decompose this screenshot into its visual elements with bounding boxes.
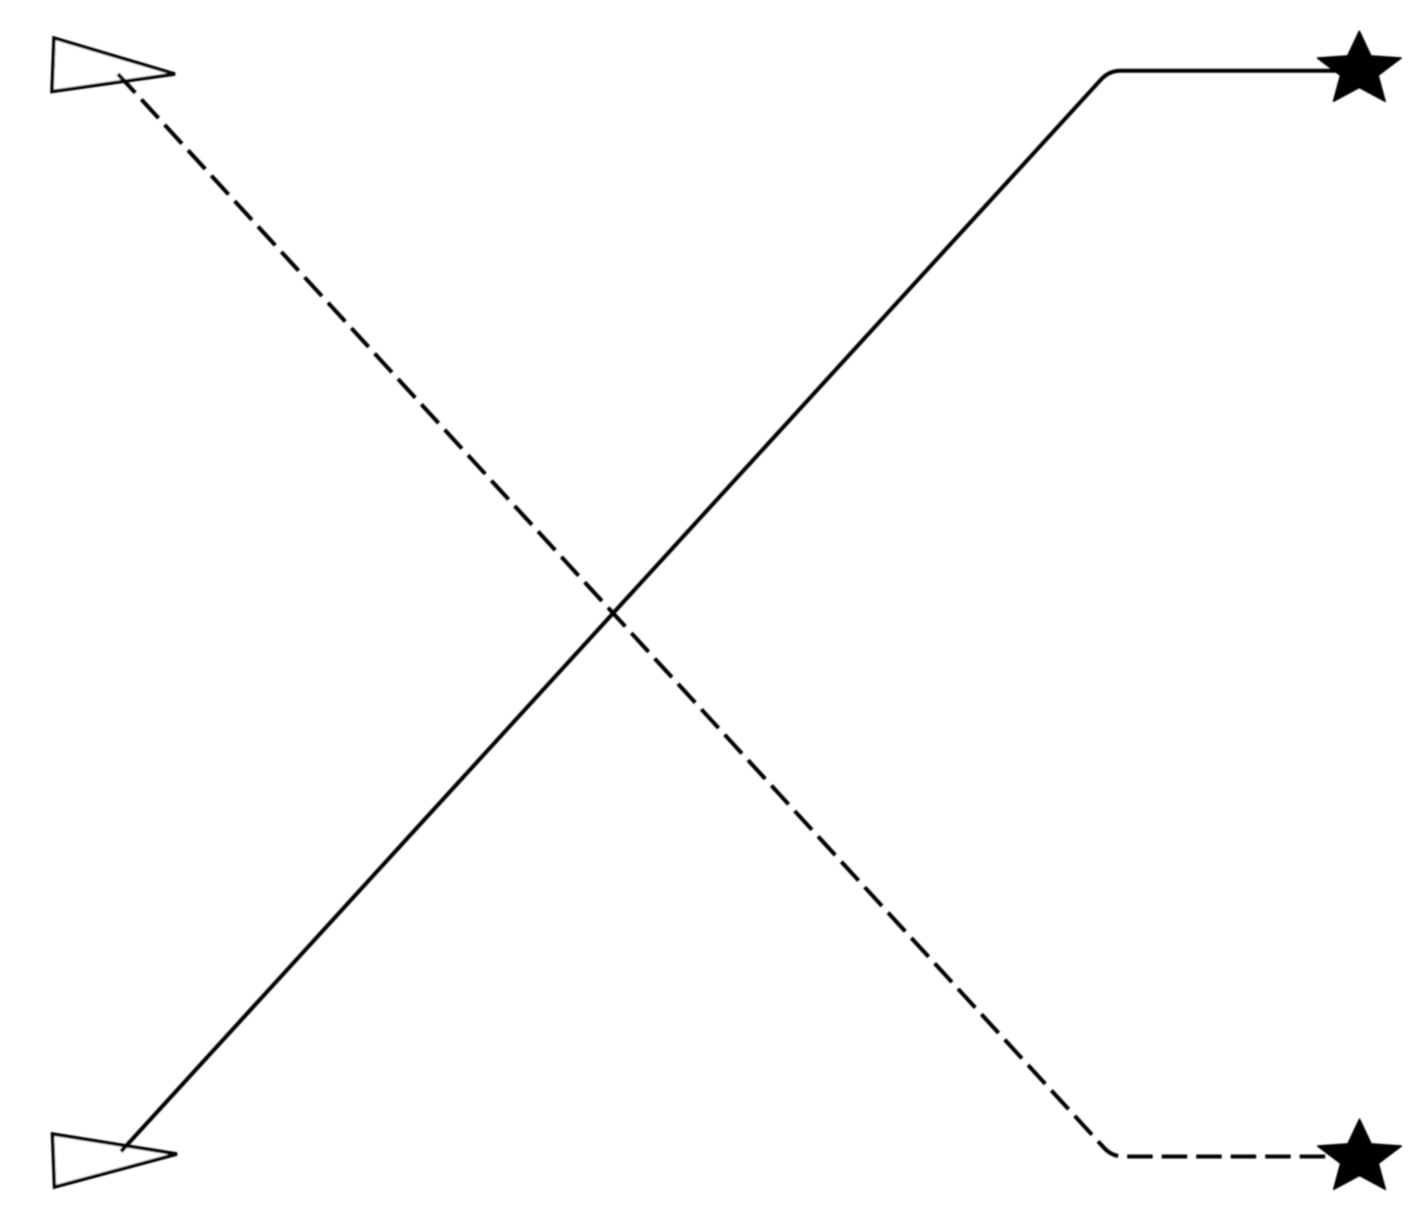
- star top-right: [1317, 31, 1401, 101]
- wire solid elbow connector from bottom-left triangle to top-right star: [121, 71, 1348, 1152]
- wire dashed elbow connector from top-left triangle to bottom-right star: [118, 74, 1348, 1157]
- triangle pointer top-left: [52, 38, 175, 92]
- star bottom-right: [1318, 1119, 1402, 1189]
- triangle pointer bottom-left: [53, 1134, 178, 1187]
